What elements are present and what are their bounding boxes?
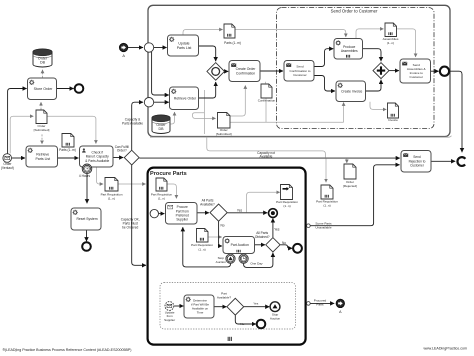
svg-text:Parts (1..m): Parts (1..m)	[59, 148, 76, 152]
svg-text:Retrieve: Retrieve	[36, 153, 49, 157]
svg-text:(Verkauf): (Verkauf)	[1, 166, 14, 170]
svg-text:Parts Available: Parts Available	[122, 122, 143, 126]
svg-text:(1..n): (1..n)	[158, 197, 165, 201]
svg-text:(1..n): (1..n)	[283, 204, 290, 208]
svg-text:Create Invoice: Create Invoice	[341, 89, 362, 93]
svg-text:Available: Available	[260, 155, 273, 159]
svg-text:Customer: Customer	[410, 75, 423, 79]
svg-text:Supplier: Supplier	[164, 318, 175, 322]
svg-text:be Ordered: be Ordered	[122, 226, 138, 230]
svg-text:Time: Time	[197, 311, 204, 315]
svg-text:Yes: Yes	[274, 228, 280, 232]
svg-text:www.LEADingPractice.com: www.LEADingPractice.com	[423, 347, 467, 351]
svg-text:DB: DB	[40, 61, 46, 65]
svg-text:Available?: Available?	[217, 295, 231, 299]
svg-text:& Parts Available: & Parts Available	[85, 159, 109, 163]
svg-text:Store Order: Store Order	[34, 87, 54, 91]
svg-text:Send Order to Customer: Send Order to Customer	[331, 9, 378, 14]
svg-text:[Submitted]: [Submitted]	[34, 128, 50, 132]
svg-text:(1..n): (1..n)	[108, 197, 115, 201]
svg-text:Parts (1..m): Parts (1..m)	[224, 41, 241, 45]
svg-text:Reset System: Reset System	[76, 217, 97, 221]
svg-text:(1..n): (1..n)	[387, 41, 394, 45]
svg-text:Order?: Order?	[117, 149, 127, 153]
svg-text:One Day: One Day	[250, 262, 263, 266]
svg-text:Available?: Available?	[200, 202, 215, 206]
svg-text:Parts: Parts	[316, 302, 324, 306]
svg-text:Procure Parts: Procure Parts	[150, 171, 187, 177]
svg-text:Invoice: Invoice	[388, 118, 398, 122]
svg-text:®|LEAD|ing Practice Business P: ®|LEAD|ing Practice Business Process Ref…	[3, 348, 132, 352]
svg-text:4 Hours: 4 Hours	[79, 174, 91, 178]
svg-text:[Submitted]: [Submitted]	[216, 132, 232, 136]
svg-text:No: No	[282, 241, 286, 245]
svg-text:Part Auction: Part Auction	[231, 243, 249, 247]
svg-text:Supplier: Supplier	[176, 218, 189, 222]
svg-text:No: No	[240, 322, 244, 326]
svg-text:Yes: Yes	[253, 302, 258, 306]
svg-text:Retrieve Order: Retrieve Order	[174, 96, 197, 100]
svg-text:Obtained?: Obtained?	[255, 235, 270, 239]
svg-text:Yes: Yes	[237, 208, 243, 212]
svg-text:Customer: Customer	[410, 164, 425, 168]
svg-text:[Rejected]: [Rejected]	[343, 184, 357, 188]
svg-text:DB: DB	[159, 127, 165, 131]
svg-text:Customer: Customer	[293, 73, 306, 77]
svg-text:Parts List: Parts List	[177, 46, 192, 50]
svg-text:Create Order: Create Order	[236, 67, 257, 71]
svg-text:Auction: Auction	[216, 260, 227, 264]
svg-text:Confirmation: Confirmation	[258, 98, 276, 102]
svg-text:Parts List: Parts List	[35, 157, 50, 161]
svg-text:(1..n): (1..n)	[198, 247, 205, 251]
svg-text:Confirmation: Confirmation	[236, 71, 255, 75]
svg-text:(1..n): (1..n)	[323, 203, 330, 207]
svg-text:Unavailable: Unavailable	[315, 226, 331, 230]
svg-text:Part Requisition: Part Requisition	[191, 243, 213, 247]
svg-text:No: No	[220, 224, 224, 228]
svg-text:Update: Update	[178, 42, 189, 46]
svg-text:Auction: Auction	[270, 316, 281, 320]
svg-text:Assemblies: Assemblies	[341, 49, 358, 53]
